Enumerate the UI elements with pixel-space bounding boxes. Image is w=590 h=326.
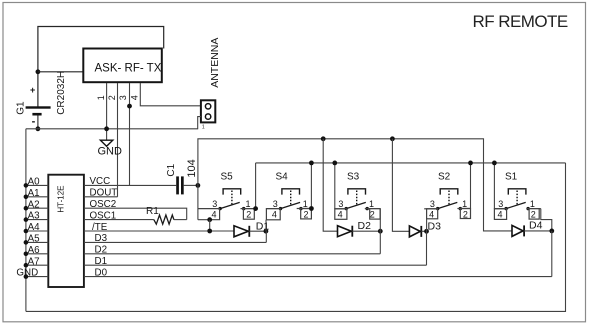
wire HT-12E pin A0 stub — [26, 184, 48, 186]
label D3 — [95, 233, 108, 244]
wire C1 right plate to rail — [184, 184, 198, 186]
wire S3 pin3 drop from rail2 — [334, 163, 336, 209]
label HT-12E — [57, 185, 66, 212]
label S3 — [347, 172, 360, 183]
node C1 rail junction — [196, 183, 201, 188]
label CR2032H — [56, 71, 67, 115]
wire D3 row — [84, 241, 266, 243]
node left rail A3 — [24, 217, 29, 222]
label OSC2 — [90, 199, 117, 210]
label A3 — [28, 211, 41, 222]
svg-text:S4: S4 — [276, 172, 289, 183]
switch S3 pin4 nook box — [335, 209, 347, 220]
svg-text:2: 2 — [370, 210, 375, 220]
switch S5 pin3 contact line — [198, 208, 220, 210]
svg-text:1: 1 — [246, 199, 251, 209]
switch S1 pin 3 label — [498, 199, 503, 209]
switch S5 pin 1 label — [246, 199, 251, 209]
wire S1 output route — [541, 209, 552, 231]
wire S3 output riser to D2 junction — [379, 209, 381, 254]
switch S2 pin1 contact line — [457, 208, 470, 210]
encoder IC HT-12E box — [48, 175, 84, 287]
diode D3 — [409, 226, 426, 237]
RF transmitter module ASK-RF-TX box — [83, 49, 162, 83]
TX pin 3 label — [118, 95, 128, 100]
switch S2 button actuator — [440, 189, 458, 205]
switch S5 lever — [220, 202, 240, 208]
label A7 — [28, 256, 40, 267]
node left rail A2 — [24, 206, 29, 211]
label A4 — [28, 222, 41, 233]
label C1 — [166, 163, 177, 176]
node S5 common junction — [207, 217, 212, 222]
svg-text:4: 4 — [272, 210, 277, 220]
switch S3 pivot contact — [345, 207, 348, 210]
node TX pin 3 junction — [127, 104, 132, 109]
switch S4 button actuator — [282, 189, 300, 205]
switch S3 pin2 box — [370, 209, 380, 220]
svg-text:A1: A1 — [28, 188, 40, 199]
svg-text:D3: D3 — [428, 220, 442, 232]
switch S1 fixed contact — [526, 207, 529, 210]
wire D2 row — [84, 253, 380, 255]
wire S2 common descender to D3 junction — [426, 219, 428, 232]
diode D2 — [338, 226, 381, 237]
title RF REMOTE — [473, 12, 568, 31]
wire S5 pin1 riser to rail2 — [255, 163, 257, 209]
switch S3 pin 2 label — [370, 210, 375, 220]
switch S4 lever — [281, 202, 301, 208]
node rail2 S1 junction — [492, 161, 497, 166]
label S5 — [221, 172, 234, 183]
svg-text:S2: S2 — [438, 172, 451, 183]
wire S5 common stub to TE row — [209, 220, 211, 231]
node rail1 D2 branch — [321, 136, 326, 141]
label A1 — [28, 188, 40, 199]
label VCC — [90, 176, 111, 187]
svg-text:G1: G1 — [16, 101, 27, 115]
antenna connector pin 2 circle — [205, 114, 210, 119]
switch S2 pin 3 label — [430, 199, 435, 209]
TX pin 4 label — [130, 95, 140, 100]
svg-text:RF REMOTE: RF REMOTE — [473, 12, 568, 31]
label A2 — [28, 199, 40, 210]
switch S2 pivot contact — [436, 207, 439, 210]
switch S3 button actuator — [348, 189, 366, 205]
wire HT-12E pin A1 stub — [26, 196, 48, 198]
switch S4 pin1 contact line — [297, 208, 312, 210]
wire antenna pin2 to GND rail — [198, 117, 201, 130]
switch S1 pin3 contact line — [494, 208, 506, 210]
switch S3 pin3 contact line — [335, 208, 346, 210]
switch S4 pivot contact — [279, 207, 282, 210]
label A5 — [28, 234, 41, 245]
svg-text:CR2032H: CR2032H — [56, 71, 67, 115]
switch S4 pin4 nook box — [266, 209, 280, 220]
switch S3 pin1 contact line — [365, 208, 381, 210]
switch S2 pin2 box — [460, 209, 470, 219]
switch S4 pin2 box — [301, 209, 312, 219]
svg-text:A7: A7 — [28, 256, 40, 267]
switch S2 pin3 contact line — [424, 208, 438, 210]
diode D1 — [234, 226, 266, 237]
label ASK- RF- TX — [95, 63, 162, 75]
svg-text:R1: R1 — [146, 206, 159, 217]
wire D1 row — [84, 264, 427, 266]
switch S5 pin2 box — [243, 209, 254, 220]
svg-text:1: 1 — [96, 95, 106, 100]
antenna connector pin 1 circle — [205, 104, 210, 109]
node left rail A6 — [24, 252, 29, 257]
ground symbol GND — [100, 140, 112, 146]
wire HT-12E pin A5 stub — [26, 241, 48, 243]
switch S4 pin 4 label — [272, 210, 277, 220]
switch S5 button actuator — [223, 189, 241, 205]
switch S1 pivot contact — [504, 207, 507, 210]
svg-text:1: 1 — [530, 199, 535, 209]
node S4 pin1 riser foot — [309, 206, 314, 211]
label A6 — [28, 245, 41, 256]
switch S3 pin 3 label — [338, 199, 343, 209]
svg-text:1: 1 — [303, 199, 308, 209]
wire battery plus loop over TX box — [38, 27, 164, 108]
svg-text:A6: A6 — [28, 245, 41, 256]
label D3 — [428, 220, 442, 232]
wire TX pin 3 (VCC) down to VCC row — [129, 83, 131, 185]
battery G1 positive plate — [26, 106, 51, 108]
svg-text:S3: S3 — [347, 172, 360, 183]
svg-text:GND: GND — [98, 146, 123, 158]
battery plus sign — [30, 85, 35, 95]
svg-text:3: 3 — [273, 199, 278, 209]
node D4 cathode junction — [549, 229, 554, 234]
svg-text:+: + — [30, 85, 35, 95]
label DOUT — [90, 188, 118, 199]
wire S4 common descender — [265, 220, 267, 231]
svg-text:A3: A3 — [28, 211, 41, 222]
switch S2 lever — [438, 202, 458, 208]
switch S3 pin 4 label — [338, 210, 343, 220]
svg-text:D4: D4 — [529, 219, 543, 231]
wire TX pin 4 to antenna — [140, 83, 201, 106]
label OSC1 — [90, 210, 117, 221]
wire D0 row — [84, 276, 552, 278]
wire DOUT row to TX pin2 — [84, 196, 118, 198]
svg-text:3: 3 — [430, 199, 435, 209]
wire S1 pin3 drop from rail2 — [493, 163, 495, 209]
label S1 — [505, 172, 518, 183]
switch S5 pin 2 label — [246, 210, 251, 220]
wire rail 2 — [256, 162, 566, 164]
wire GND rail battery to antenna — [26, 128, 198, 130]
svg-text:S5: S5 — [221, 172, 234, 183]
wire HT-12E pin A2 stub — [26, 207, 48, 209]
svg-text:1: 1 — [369, 199, 374, 209]
wire /TE row — [84, 230, 234, 232]
label S2 — [438, 172, 451, 183]
svg-text:4: 4 — [498, 210, 503, 220]
wire HT-12E pin A4 stub — [26, 230, 48, 232]
svg-text:3: 3 — [212, 199, 217, 209]
diode D4 — [512, 225, 552, 236]
switch S1 pin 2 label — [531, 210, 536, 220]
wire VCC row to C1 — [84, 184, 176, 186]
battery G1 negative plate — [32, 113, 41, 116]
label 104 — [186, 159, 198, 177]
label D4 — [529, 219, 543, 231]
switch S1 pin4 nook box — [494, 209, 506, 220]
label D2 — [358, 220, 372, 232]
svg-text:C1: C1 — [166, 163, 177, 176]
wire rail1 drop to D3 anode — [392, 139, 409, 232]
label /TE — [92, 222, 108, 233]
wire S4 pin1 riser to rail2 — [310, 163, 312, 209]
switch S4 pin 3 label — [273, 199, 278, 209]
wire left GND rail vertical — [25, 129, 27, 312]
label G1 — [16, 101, 27, 115]
node D1 cathode junction — [264, 229, 269, 234]
label D1 — [95, 256, 108, 267]
TX pin 1 label — [96, 95, 106, 100]
label GND (HT-12E) — [16, 268, 38, 279]
switch S2 pin4 nook box — [427, 209, 438, 219]
switch S3 lever — [346, 202, 366, 208]
wire D0 row riser — [551, 231, 553, 277]
node left rail A4 — [24, 229, 29, 234]
label GND (TX) — [98, 146, 123, 158]
node S5 pin1 riser foot — [253, 206, 258, 211]
switch S3 pin 1 label — [369, 199, 374, 209]
switch S2 pin 4 label — [429, 210, 434, 220]
label D1 — [256, 221, 270, 233]
wire HT-12E pin GND stub — [26, 276, 48, 278]
wire TX pin 2 (data) down to DOUT row — [117, 83, 119, 197]
wire OSC2 row and link down — [84, 208, 187, 219]
label ANTENNA — [209, 38, 221, 88]
wire common rail and top rail 1 — [198, 139, 512, 231]
wire HT-12E pin A7 stub — [26, 264, 48, 266]
node D3 cathode junction — [424, 229, 429, 234]
label R1 — [146, 206, 159, 217]
svg-text:2: 2 — [304, 210, 309, 220]
switch S5 pin4 nook — [198, 209, 220, 220]
node rail2 S4 junction — [309, 161, 314, 166]
svg-text:3: 3 — [498, 199, 503, 209]
switch S1 pin2 box — [529, 209, 539, 220]
svg-text:4: 4 — [130, 95, 140, 100]
svg-text:-: - — [32, 116, 36, 128]
switch S5 fixed contact — [242, 207, 245, 210]
switch S1 pin1 contact line — [527, 208, 541, 210]
svg-text:ANTENNA: ANTENNA — [209, 38, 221, 88]
switch S5 pin1 contact line — [241, 208, 256, 210]
wire rail1 drop to D2 anode — [323, 139, 337, 231]
svg-text:4: 4 — [212, 210, 217, 220]
battery minus sign — [32, 116, 36, 128]
switch S1 pin 4 label — [498, 210, 503, 220]
wire HT-12E pin A3 stub — [26, 219, 48, 221]
capacitor C1 left plate — [176, 176, 179, 194]
wire TX pin 1 (GND) — [106, 83, 108, 140]
node left rail A5 — [24, 240, 29, 245]
switch S2 fixed contact — [459, 207, 462, 210]
wire D3 row riser — [265, 231, 267, 242]
wire HT-12E pin A6 stub — [26, 253, 48, 255]
node left rail GND — [24, 274, 29, 279]
svg-text:ASK- RF- TX: ASK- RF- TX — [95, 63, 162, 75]
switch S2 pin 1 label — [462, 199, 467, 209]
svg-text:A5: A5 — [28, 234, 41, 245]
switch S4 pin3 contact line — [266, 208, 280, 210]
switch S5 pin 4 label — [212, 210, 217, 220]
node left rail A7 — [24, 263, 29, 268]
svg-text:2: 2 — [531, 210, 536, 220]
svg-text:4: 4 — [429, 210, 434, 220]
wire S2 pin1 riser to rail2 — [470, 163, 472, 209]
TX pin 2 label — [107, 95, 117, 100]
antenna connector box — [201, 100, 215, 122]
wire OSC1 row to R1 — [84, 219, 154, 221]
switch S4 pin 1 label — [303, 199, 308, 209]
svg-text:D2: D2 — [358, 220, 372, 232]
svg-text:3: 3 — [338, 199, 343, 209]
svg-text:1: 1 — [462, 199, 467, 209]
wire rail2 right drop and bottom rail — [26, 163, 566, 312]
svg-text:HT-12E: HT-12E — [57, 185, 66, 212]
wire battery plus to TX box left — [38, 71, 83, 73]
svg-text:A0: A0 — [28, 177, 41, 188]
svg-text:3: 3 — [118, 95, 128, 100]
svg-text:2: 2 — [246, 210, 251, 220]
switch S2 pin 2 label — [463, 210, 468, 220]
switch S1 pin 1 label — [530, 199, 535, 209]
node battery minus junction — [36, 126, 41, 131]
capacitor C1 right plate — [181, 176, 184, 194]
node left rail A1 — [24, 195, 29, 200]
label D2 — [95, 245, 108, 256]
node D2 cathode junction — [378, 229, 383, 234]
switch S5 pin 3 label — [212, 199, 217, 209]
wire battery minus stub — [37, 116, 39, 129]
svg-text:S1: S1 — [505, 172, 518, 183]
node GND rail at TX pin1 — [104, 126, 109, 131]
label D0 — [95, 267, 108, 278]
switch S4 pin 2 label — [304, 210, 309, 220]
resistor R1 — [154, 215, 187, 224]
label S4 — [276, 172, 289, 183]
switch S1 button actuator — [508, 189, 526, 205]
svg-text:2: 2 — [107, 95, 117, 100]
node rail2 S2 junction — [468, 161, 473, 166]
switch S1 lever — [506, 202, 526, 208]
node rail1 D3 branch — [390, 136, 395, 141]
switch S4 fixed contact — [299, 207, 302, 210]
node left rail A0 — [24, 183, 29, 188]
switch S3 fixed contact — [366, 207, 369, 210]
svg-text:4: 4 — [338, 210, 343, 220]
wire D1 row riser — [426, 231, 428, 265]
node battery plus junction — [36, 69, 41, 74]
node rail2 S3 junction — [332, 161, 337, 166]
svg-text:1: 1 — [202, 124, 205, 130]
label A0 — [28, 177, 41, 188]
switch S5 pivot contact — [218, 207, 221, 210]
antenna connector pin 1 tiny label — [202, 124, 205, 130]
svg-text:A4: A4 — [28, 222, 41, 233]
svg-text:104: 104 — [186, 159, 198, 177]
svg-text:GND: GND — [16, 268, 38, 279]
svg-text:A2: A2 — [28, 199, 40, 210]
node S5 TE junction — [207, 229, 212, 234]
